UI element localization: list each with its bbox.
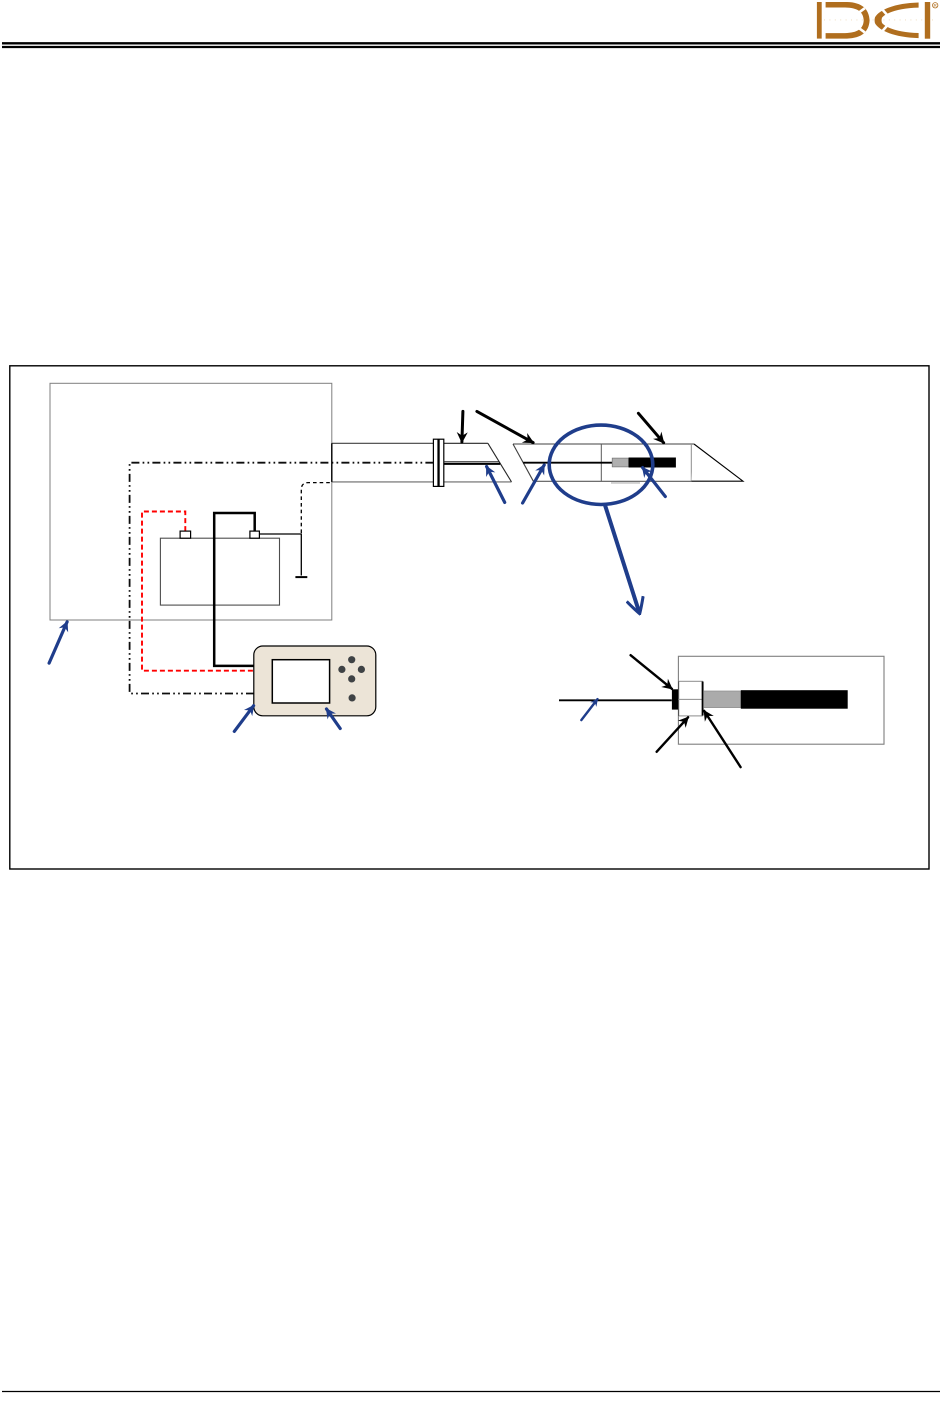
battery wire black <box>214 513 255 666</box>
battery wire red dashed <box>142 512 254 671</box>
battery left terminal <box>180 531 191 538</box>
transmitter housing left slant <box>513 444 533 481</box>
header double rule lower <box>2 46 940 48</box>
wire antenna upper thin line <box>444 461 499 463</box>
DCI logo D gap bottom <box>857 27 865 33</box>
arrow blue to rig box <box>49 622 67 663</box>
arrow blue to transmitter <box>643 468 666 497</box>
arrow blue to display screen <box>327 709 341 729</box>
remote display button down <box>348 675 355 682</box>
inset transmitter body black <box>741 690 848 709</box>
DCI logo left bar <box>817 2 822 39</box>
DCI logo C gap top <box>882 9 888 16</box>
arrow blue to wire antenna <box>487 467 505 503</box>
wire antenna lead <box>444 463 501 465</box>
inset arrow black to connector right <box>704 711 740 767</box>
wireline conductor dash-dot-dot <box>130 463 434 694</box>
drill pipe top edge <box>332 442 434 444</box>
housing centerline wire <box>523 462 612 464</box>
ground wire <box>259 534 301 576</box>
DCI logo D gap top <box>857 8 865 14</box>
battery <box>160 538 279 605</box>
DCI logo registered mark <box>933 3 938 8</box>
ground stake tick <box>295 576 307 578</box>
remote display button left <box>338 666 345 673</box>
transmitter housing divider <box>600 444 602 481</box>
transmitter housing top edge <box>513 443 694 445</box>
wireline collar <box>433 439 443 486</box>
DCI logo C gap bottom <box>882 24 888 31</box>
inset arrow black to connector bottom <box>657 717 689 752</box>
zoom ellipse <box>549 425 653 504</box>
DCI logo right bar <box>925 2 930 39</box>
inset frame <box>678 656 884 744</box>
pipe break slant <box>488 443 512 482</box>
remote display body <box>254 646 376 716</box>
DCI logo C bowl <box>875 3 919 39</box>
inset connector box <box>679 681 703 716</box>
transmitter housing bottom edge <box>533 480 691 482</box>
remote display button right <box>358 666 365 673</box>
footer rule <box>2 1391 940 1393</box>
header double rule upper <box>2 42 940 44</box>
ground alt dotted wire <box>301 483 332 533</box>
inset transmitter front gray <box>704 691 741 708</box>
inset connector black edge <box>702 682 704 716</box>
inset connector left edge dark <box>678 681 680 716</box>
arrow black to pipe end <box>462 411 463 442</box>
wireline collar center bar <box>437 439 439 486</box>
inset connector mid line <box>679 698 703 700</box>
remote display button up <box>348 656 355 663</box>
remote display screen <box>272 660 329 703</box>
drill rig box <box>50 383 332 620</box>
arrow blue to display corner <box>234 706 253 732</box>
transmitter body black <box>629 458 676 468</box>
figure frame <box>10 366 929 869</box>
transmitter front gray <box>612 458 628 467</box>
arrow black to housing slant <box>477 411 533 442</box>
drill head tip <box>691 444 743 481</box>
inset arrow blue to wire <box>581 699 597 720</box>
arrow blue to housing wire <box>523 465 545 503</box>
drill pipe bottom edge <box>332 481 512 483</box>
transmitter housing right cap <box>690 444 692 481</box>
battery right terminal <box>250 531 260 538</box>
DCI logo dotted midline <box>824 19 933 21</box>
inset wire antenna <box>559 699 672 701</box>
inset arrow black to block <box>631 655 672 689</box>
remote display button power <box>349 694 356 701</box>
DCI logo D bowl <box>826 2 870 39</box>
pipe segment top edge right of collar <box>444 442 488 444</box>
inset feedthrough block <box>672 689 679 709</box>
arrow blue long to inset <box>605 505 639 612</box>
housing bottom light segment <box>611 482 640 484</box>
arrow black to housing top <box>638 413 663 442</box>
drill pipe left cap <box>331 443 333 482</box>
